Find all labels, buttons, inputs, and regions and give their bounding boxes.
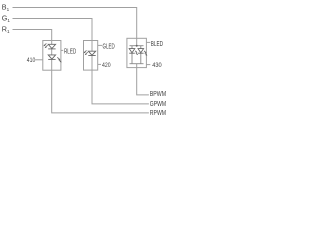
svg-text:G1: G1 (2, 13, 11, 23)
svg-text:420: 420 (102, 62, 111, 69)
svg-text:410: 410 (27, 57, 36, 64)
svg-text:B1: B1 (2, 2, 10, 12)
svg-text:RLED: RLED (64, 48, 76, 55)
svg-text:BPWM: BPWM (150, 91, 166, 98)
svg-text:RPWM: RPWM (150, 110, 166, 117)
svg-text:R1: R1 (2, 24, 10, 34)
svg-text:GLED: GLED (103, 44, 115, 51)
svg-text:BLED: BLED (151, 41, 163, 48)
svg-text:430: 430 (152, 62, 162, 69)
svg-text:GPWM: GPWM (150, 101, 166, 108)
